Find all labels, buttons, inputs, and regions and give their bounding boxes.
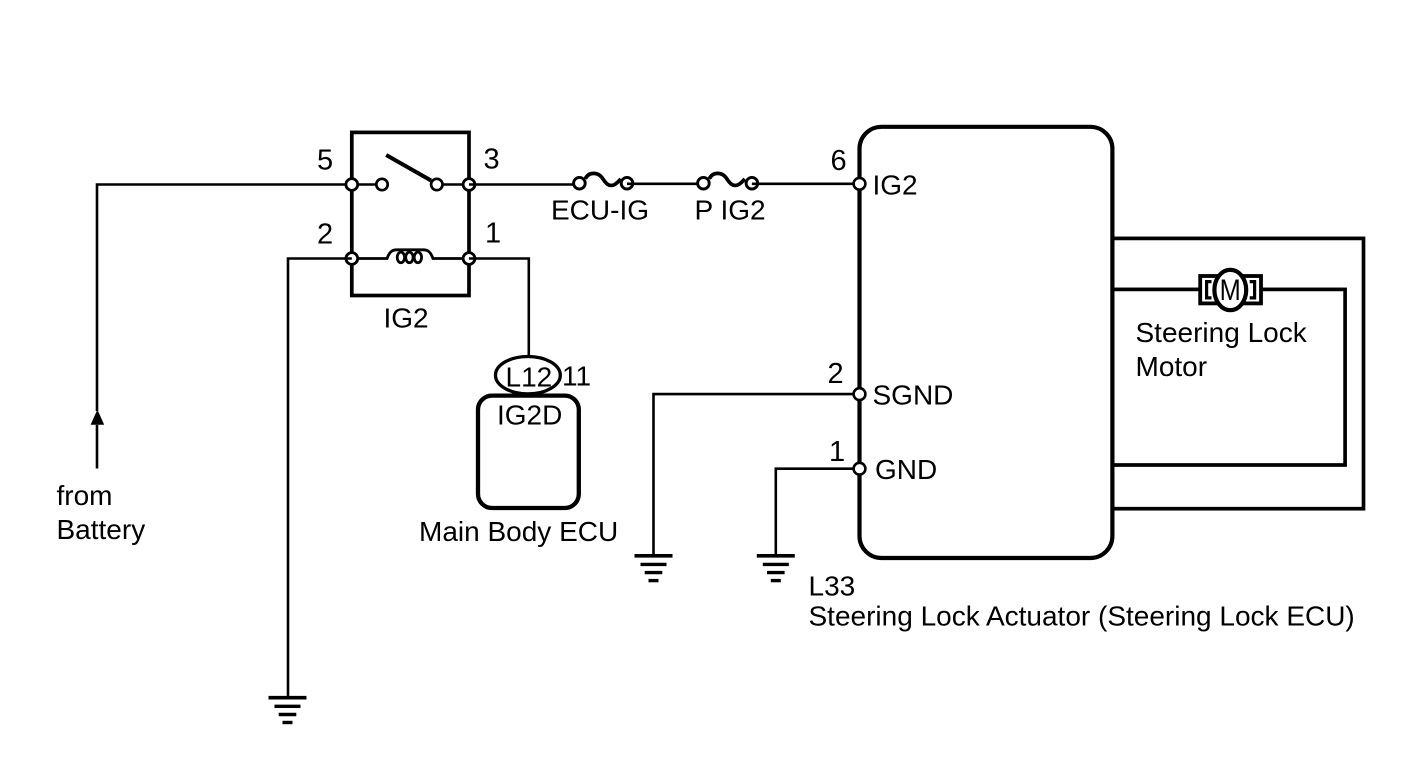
wire ECU pin SGND to ground xyxy=(654,394,860,554)
svg-text:IG2: IG2 xyxy=(873,170,918,201)
fuse ECU-IG terminal circles xyxy=(574,177,633,189)
fuse P IG2 terminal circles xyxy=(698,177,758,189)
steering lock motor outer box xyxy=(1112,238,1363,508)
svg-text:1: 1 xyxy=(485,218,501,250)
connector label L12 xyxy=(506,362,553,393)
relay coil wire xyxy=(352,250,469,259)
pin label GND xyxy=(875,454,937,485)
motor M1 bracket xyxy=(1200,276,1261,303)
wire arrow shaft to battery xyxy=(96,425,99,469)
relay terminal 1 xyxy=(463,253,475,265)
fuse label ECU-IG xyxy=(551,195,649,226)
ground (SGND) xyxy=(635,556,673,581)
pin number 2 xyxy=(317,219,333,251)
svg-text:2: 2 xyxy=(317,219,333,251)
svg-text:GND: GND xyxy=(875,454,937,485)
relay label IG2 xyxy=(384,303,429,334)
terminal label IG2D xyxy=(497,400,562,431)
svg-text:from: from xyxy=(57,480,113,511)
relay coil loops xyxy=(397,252,421,263)
steering lock ECU box L33 xyxy=(860,127,1113,558)
Main Body ECU box xyxy=(478,396,579,508)
steering lock motor inner box xyxy=(1112,289,1345,465)
svg-text:Motor: Motor xyxy=(1136,351,1208,382)
pin number 5 xyxy=(317,145,333,177)
relay switch contact circles xyxy=(376,179,442,190)
pin IG2 circle xyxy=(854,178,866,190)
motor M1 circle xyxy=(1214,270,1246,310)
svg-text:3: 3 xyxy=(484,144,500,176)
relay terminal 5 xyxy=(346,179,358,191)
svg-text:P IG2: P IG2 xyxy=(695,195,766,226)
connector L12 oval xyxy=(496,357,561,394)
wire relay pin 3 to fuse ECU-IG xyxy=(469,183,580,186)
svg-text:L33: L33 xyxy=(809,571,856,602)
svg-text:Steering Lock: Steering Lock xyxy=(1136,317,1308,348)
wire fuse P IG2 to ECU pin 6 xyxy=(752,183,860,186)
wire ECU pin GND to ground xyxy=(776,469,860,555)
svg-text:L12: L12 xyxy=(506,362,553,393)
svg-text:2: 2 xyxy=(828,358,844,390)
svg-text:11: 11 xyxy=(562,360,591,391)
relay internal switch wire xyxy=(352,183,469,186)
svg-text:Steering Lock Actuator (Steeri: Steering Lock Actuator (Steering Lock EC… xyxy=(809,600,1355,631)
svg-text:IG2D: IG2D xyxy=(497,400,562,431)
pin GND circle xyxy=(854,463,866,475)
pin label SGND xyxy=(873,380,954,411)
pin number 1 xyxy=(485,218,501,250)
svg-text:IG2: IG2 xyxy=(384,303,429,334)
svg-text:5: 5 xyxy=(317,145,333,177)
wire relay pin 2 to ground xyxy=(288,259,352,697)
label Steering Lock Motor xyxy=(1136,317,1308,382)
label Main Body ECU xyxy=(419,516,618,547)
label from Battery xyxy=(57,480,146,545)
svg-text:SGND: SGND xyxy=(873,380,954,411)
pin SGND circle xyxy=(854,388,866,400)
ground (GND) xyxy=(757,556,795,581)
pin number 1 xyxy=(829,436,845,468)
relay terminal 2 xyxy=(346,253,358,265)
motor M1 letter xyxy=(1220,273,1241,306)
wire relay pin 1 to connector L12 xyxy=(469,259,529,358)
pin number 3 xyxy=(484,144,500,176)
fuse P IG2 element wave xyxy=(709,173,745,185)
relay IG2 box xyxy=(352,132,469,295)
arrowhead from Battery (pointing up) xyxy=(91,410,105,425)
label Steering Lock Actuator (Steering Lock ECU) xyxy=(809,600,1355,631)
motor M1 brush contacts xyxy=(1207,282,1255,298)
svg-text:Battery: Battery xyxy=(57,514,146,545)
relay switch blade xyxy=(386,155,431,181)
label L33 xyxy=(809,571,856,602)
wire fuse ECU-IG to fuse P IG2 xyxy=(627,183,704,186)
ground (relay pin 2) xyxy=(269,698,307,723)
svg-text:ECU-IG: ECU-IG xyxy=(551,195,649,226)
pin number 11 xyxy=(562,360,591,391)
pin label IG2 xyxy=(873,170,918,201)
svg-text:M: M xyxy=(1220,273,1241,306)
fuse label P IG2 xyxy=(695,195,766,226)
svg-text:Main Body ECU: Main Body ECU xyxy=(419,516,618,547)
pin number 6 xyxy=(831,145,847,177)
wire from battery up to relay pin 5 xyxy=(97,185,352,412)
fuse ECU-IG element wave xyxy=(585,173,621,185)
svg-text:6: 6 xyxy=(831,145,847,177)
svg-text:1: 1 xyxy=(829,436,845,468)
relay terminal 3 xyxy=(463,179,475,191)
pin number 2 xyxy=(828,358,844,390)
